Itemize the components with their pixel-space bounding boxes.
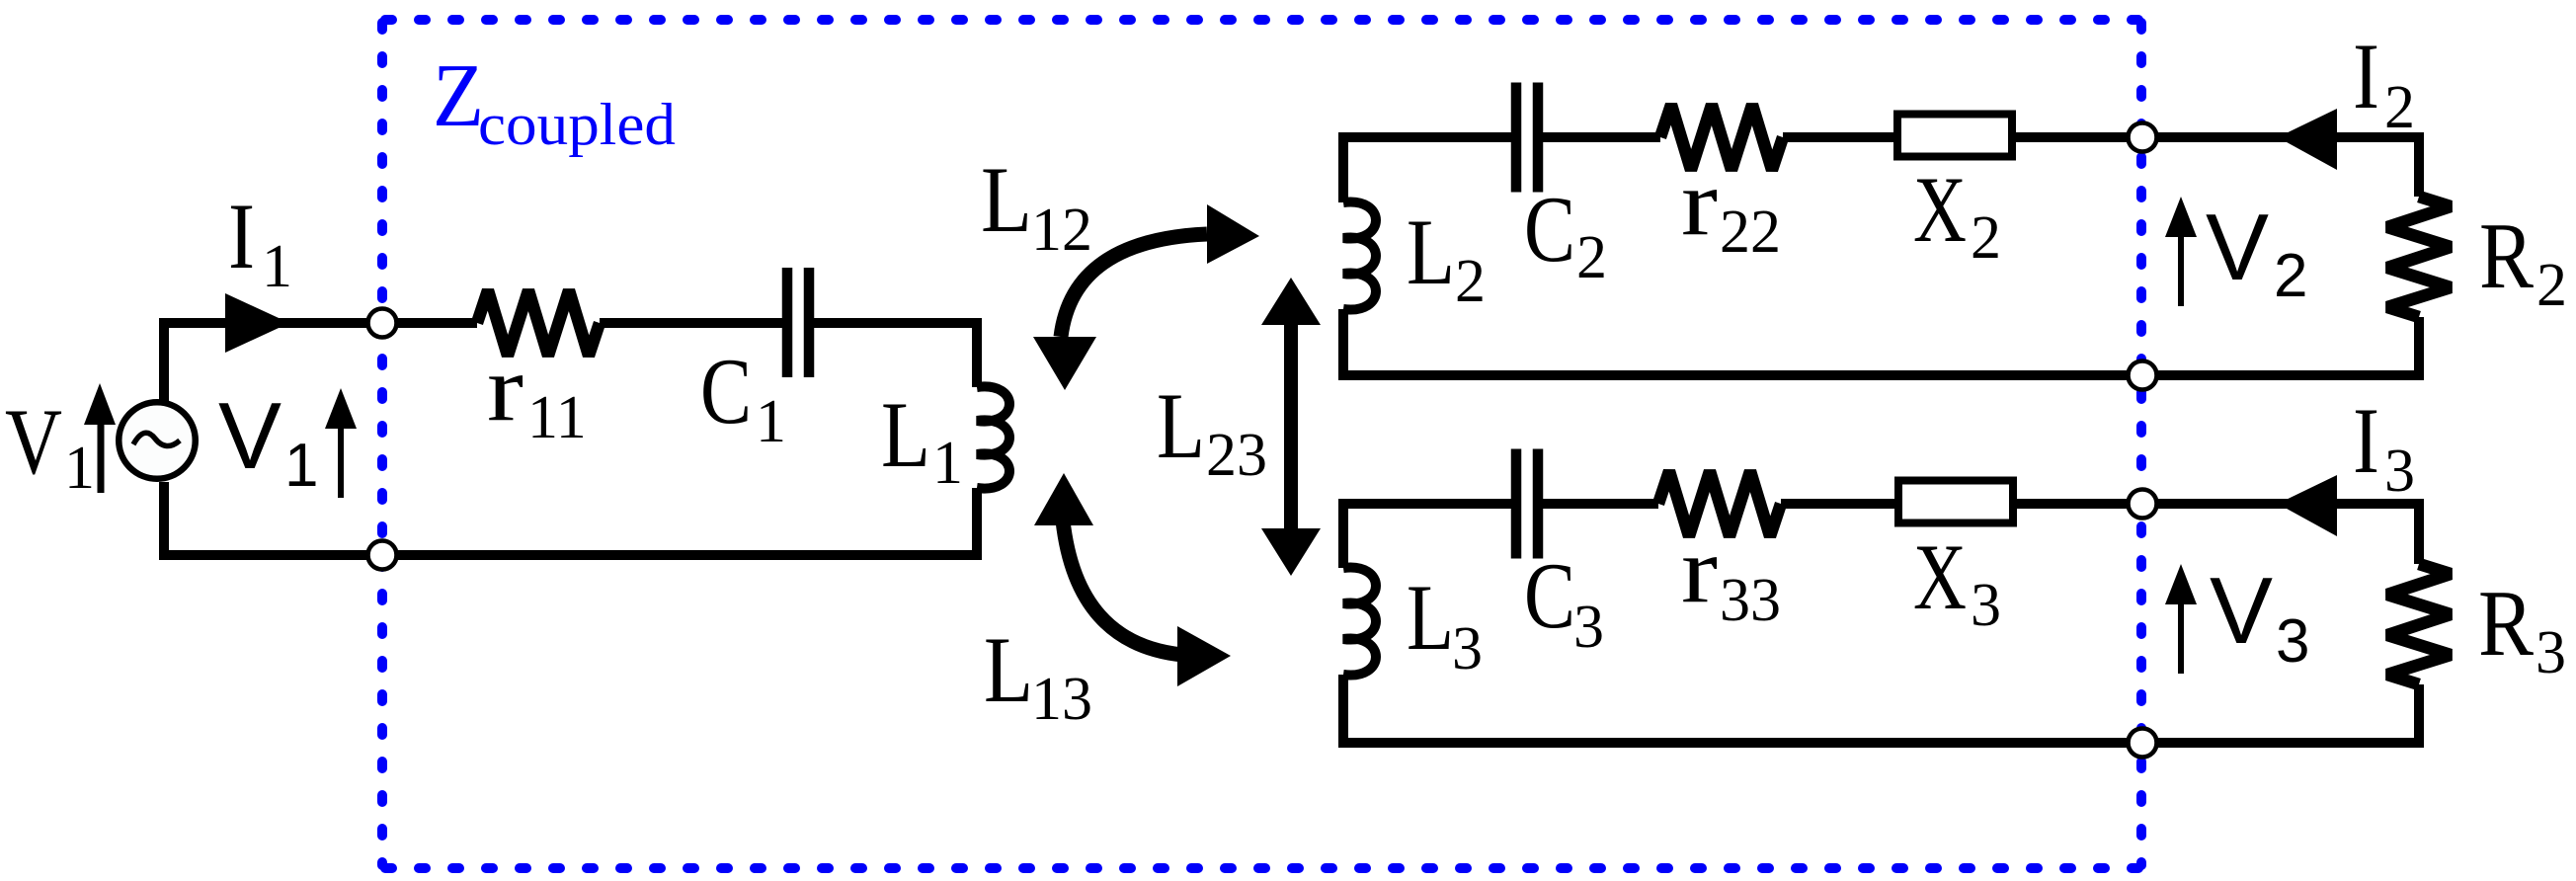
capacitor C3 xyxy=(1516,449,1538,559)
label X2 xyxy=(1913,157,2001,272)
svg-text:2: 2 xyxy=(1971,204,2001,272)
svg-text:2: 2 xyxy=(1576,224,1607,291)
coupling arrow L23 xyxy=(1261,278,1321,576)
svg-text:V: V xyxy=(2210,558,2273,664)
label r11 xyxy=(487,336,587,451)
svg-text:1: 1 xyxy=(284,432,318,500)
resistor R2 xyxy=(2387,197,2451,317)
svg-text:2: 2 xyxy=(2384,74,2415,141)
svg-text:R: R xyxy=(2478,571,2535,676)
inductor L2 xyxy=(1343,201,1376,309)
label r22 xyxy=(1681,150,1781,266)
label L3 xyxy=(1407,565,1483,682)
arrow V1 inner xyxy=(325,388,357,498)
svg-text:22: 22 xyxy=(1720,199,1781,266)
label Zcoupled xyxy=(433,45,676,157)
inductor L1 xyxy=(977,386,1009,488)
svg-text:coupled: coupled xyxy=(478,92,676,157)
box X2 xyxy=(1897,115,2012,157)
label C1 xyxy=(700,339,786,455)
label L1 xyxy=(881,382,963,497)
label L2 xyxy=(1407,200,1486,315)
svg-text:V: V xyxy=(218,383,282,489)
resistor r33 xyxy=(1658,471,1781,536)
svg-text:C: C xyxy=(1524,543,1575,648)
svg-text:Z: Z xyxy=(433,45,484,145)
label L13 xyxy=(984,617,1092,733)
label C3 xyxy=(1524,543,1604,661)
svg-text:1: 1 xyxy=(262,233,292,300)
AC source V1 xyxy=(119,402,196,479)
node top-left xyxy=(368,309,397,338)
svg-text:23: 23 xyxy=(1206,422,1267,489)
svg-text:3: 3 xyxy=(1573,594,1604,661)
svg-text:3: 3 xyxy=(2384,438,2415,505)
label V1 inner xyxy=(218,383,318,500)
svg-text:2: 2 xyxy=(1455,248,1486,315)
inductor L3 xyxy=(1343,567,1376,675)
arrow V2 xyxy=(2165,197,2197,306)
label R3 xyxy=(2478,571,2566,686)
svg-text:R: R xyxy=(2479,203,2535,308)
label I2 xyxy=(2353,24,2415,141)
svg-text:33: 33 xyxy=(1720,567,1781,634)
label r33 xyxy=(1681,518,1781,634)
label C2 xyxy=(1524,177,1607,291)
resistor r22 xyxy=(1660,105,1783,170)
label L23 xyxy=(1157,373,1267,489)
svg-text:3: 3 xyxy=(2536,619,2566,686)
svg-text:I: I xyxy=(228,184,255,288)
svg-text:L: L xyxy=(881,382,930,487)
label I3 xyxy=(2353,388,2415,505)
label I1 xyxy=(228,184,292,300)
svg-text:3: 3 xyxy=(1971,572,2001,639)
svg-text:X: X xyxy=(1913,157,1967,262)
svg-text:2: 2 xyxy=(2536,252,2567,319)
svg-text:11: 11 xyxy=(527,384,587,451)
node bottom-right upper xyxy=(2129,361,2157,390)
dashed box Zcoupled boundary xyxy=(382,20,2141,868)
svg-text:3: 3 xyxy=(1452,615,1483,682)
svg-text:1: 1 xyxy=(932,430,963,497)
arrow I1 xyxy=(225,293,289,353)
svg-text:V: V xyxy=(2206,195,2269,300)
label L12 xyxy=(981,147,1092,264)
resistor r11 xyxy=(477,290,600,356)
svg-text:r: r xyxy=(487,336,523,440)
svg-text:C: C xyxy=(1524,177,1575,281)
arrow I3 xyxy=(2278,475,2337,536)
svg-text:r: r xyxy=(1681,150,1718,255)
coupling arrow L12 xyxy=(1033,204,1259,390)
resistor R3 xyxy=(2387,564,2451,684)
node bottom-left xyxy=(368,541,397,570)
svg-text:L: L xyxy=(1407,565,1454,670)
arrow V1 left xyxy=(84,383,116,493)
svg-text:2: 2 xyxy=(2274,242,2307,310)
svg-text:L: L xyxy=(984,617,1033,722)
capacitor C2 xyxy=(1516,83,1538,193)
arrow I2 xyxy=(2278,109,2337,170)
label V2 xyxy=(2206,195,2307,310)
svg-text:L: L xyxy=(981,147,1032,252)
svg-text:13: 13 xyxy=(1031,666,1092,733)
label R2 xyxy=(2479,203,2567,319)
arrow V3 xyxy=(2165,564,2197,674)
svg-text:I: I xyxy=(2353,24,2379,128)
coupling arrow L13 xyxy=(1034,473,1231,686)
node bottom-right lower xyxy=(2129,729,2157,758)
node top-right lower xyxy=(2129,490,2157,519)
circuit 3 wires xyxy=(1343,504,2419,743)
box X3 xyxy=(1898,481,2013,523)
svg-text:3: 3 xyxy=(2276,607,2309,676)
svg-text:V: V xyxy=(5,389,62,494)
label X3 xyxy=(1913,524,2001,639)
node top-right upper xyxy=(2129,123,2157,152)
svg-text:L: L xyxy=(1157,373,1205,478)
svg-text:1: 1 xyxy=(756,388,786,455)
svg-text:X: X xyxy=(1913,524,1967,629)
source V1 wires xyxy=(164,323,977,555)
svg-text:I: I xyxy=(2353,388,2379,493)
capacitor C1 xyxy=(787,268,809,377)
svg-text:12: 12 xyxy=(1031,197,1092,264)
svg-text:L: L xyxy=(1407,200,1455,304)
label V1 left xyxy=(5,389,95,502)
svg-text:C: C xyxy=(700,339,752,443)
svg-text:1: 1 xyxy=(64,435,95,502)
svg-text:r: r xyxy=(1681,518,1718,622)
label V3 xyxy=(2210,558,2309,676)
circuit 2 wires xyxy=(1343,137,2419,375)
